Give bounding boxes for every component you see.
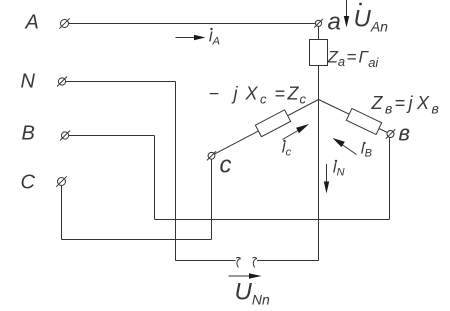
voltage arrow U_Nn bbox=[229, 273, 262, 278]
svg-text:IN: IN bbox=[333, 160, 345, 179]
wire C phase: up to terminal c bbox=[211, 159, 213, 240]
terminal A bbox=[59, 18, 69, 28]
voltage arrow U_An bbox=[344, 0, 349, 28]
current arrow I_A bbox=[176, 35, 206, 40]
break hook left bbox=[236, 257, 240, 267]
wire neutral break to star vertical bbox=[257, 260, 319, 262]
wire node a down to resistor Za bbox=[318, 26, 320, 39]
svg-text:IB: IB bbox=[361, 141, 373, 160]
wire star junction to terminal b (Zb branch) bbox=[319, 100, 388, 133]
svg-text:UAn: UAn bbox=[354, 6, 389, 35]
wire C phase: down from terminal C bbox=[61, 186, 63, 240]
wire A phase: terminal A to node a bbox=[69, 23, 316, 25]
svg-text:UNn: UNn bbox=[235, 279, 270, 308]
terminal a bbox=[314, 19, 323, 28]
svg-text:−jXc=Zc: −jXc=Zc bbox=[209, 84, 307, 107]
wire B phase: down bbox=[154, 136, 156, 220]
terminal b bbox=[386, 129, 396, 139]
wire neutral: star junction down bbox=[318, 100, 320, 261]
current arrow I_c bbox=[283, 124, 310, 140]
svg-text:в: в bbox=[399, 121, 410, 146]
current arrow I_N bbox=[324, 164, 329, 194]
inductor Zb (rect on diagonal) bbox=[346, 109, 381, 135]
svg-text:Za=Γai: Za=Γai bbox=[327, 48, 380, 71]
svg-text:N: N bbox=[21, 71, 36, 93]
wire B phase: up to terminal b bbox=[389, 138, 391, 220]
terminal N bbox=[57, 77, 67, 87]
break hook right bbox=[252, 257, 256, 267]
svg-text:Ic: Ic bbox=[282, 140, 292, 159]
terminal c bbox=[207, 151, 216, 160]
svg-text:Zв=jXв: Zв=jXв bbox=[371, 93, 439, 117]
current arrow I_b bbox=[333, 138, 357, 155]
wire star junction to terminal c (Zc branch) bbox=[214, 100, 318, 155]
svg-text:a: a bbox=[328, 9, 341, 36]
wire B phase: bottom run right bbox=[155, 219, 390, 221]
wire C phase: bottom run right bbox=[62, 239, 212, 241]
terminal C bbox=[56, 176, 66, 186]
wire N phase: down bbox=[175, 82, 177, 261]
svg-text:B: B bbox=[22, 123, 35, 145]
svg-text:A: A bbox=[25, 12, 39, 34]
resistor Za bbox=[310, 40, 328, 66]
terminal B bbox=[60, 131, 70, 141]
wire Za to star junction bbox=[318, 66, 320, 100]
svg-text:IA: IA bbox=[209, 29, 221, 48]
svg-text:C: C bbox=[21, 172, 36, 194]
wire N phase: right to break bbox=[176, 260, 236, 262]
wire B phase: terminal B right bbox=[69, 135, 155, 137]
svg-text:c: c bbox=[220, 152, 232, 179]
wire N phase: terminal N right bbox=[66, 81, 176, 83]
capacitor Zc (rect on diagonal) bbox=[255, 110, 290, 137]
